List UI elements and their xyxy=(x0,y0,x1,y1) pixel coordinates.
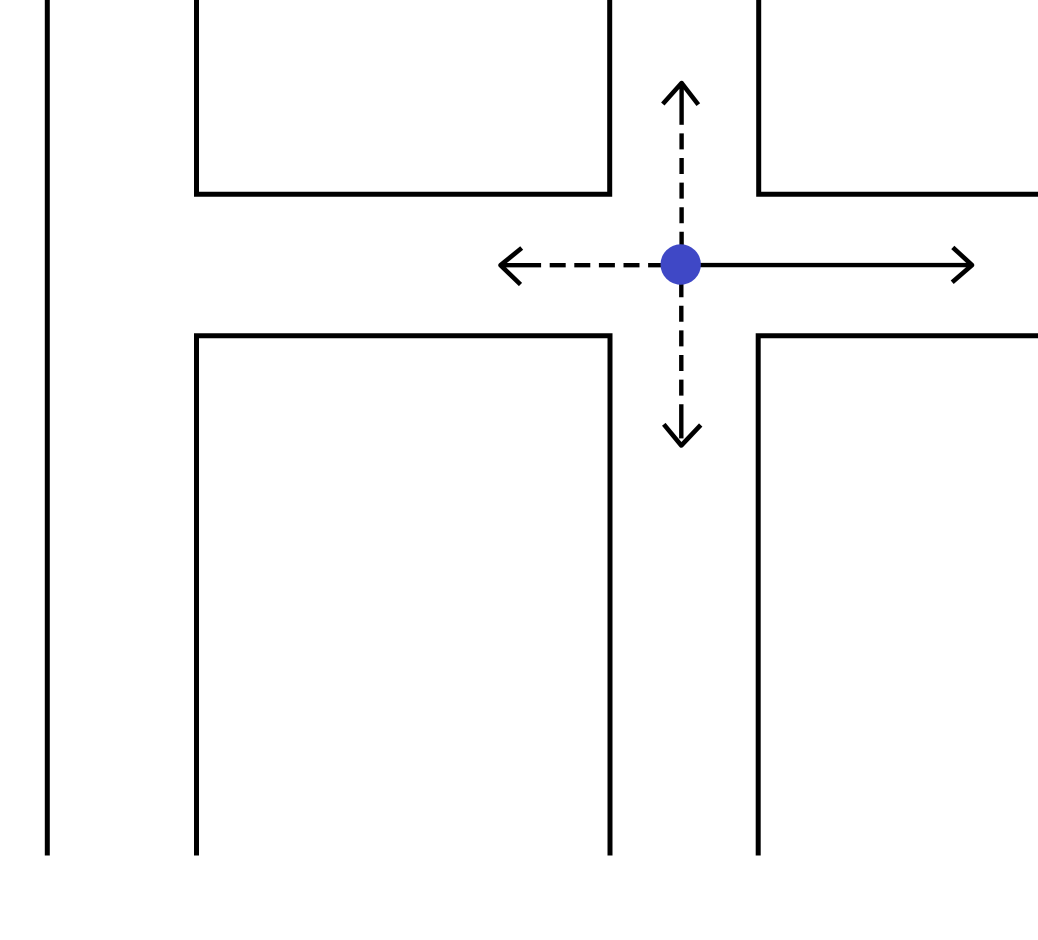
block NW outline xyxy=(197,0,610,194)
dashed arrow north head xyxy=(663,83,699,105)
dashed arrow south head xyxy=(664,424,701,445)
dashed arrow north shaft xyxy=(679,86,683,265)
dashed arrow west head xyxy=(501,248,522,285)
dashed arrow south shaft xyxy=(679,265,683,439)
solid arrow east shaft xyxy=(681,263,969,267)
road edge west boundary xyxy=(45,0,50,856)
block SW outline xyxy=(197,336,611,856)
block SE outline xyxy=(758,336,1038,856)
solid arrow east head xyxy=(952,247,972,282)
block NE outline xyxy=(759,0,1038,194)
node agent dot xyxy=(661,244,701,284)
dashed arrow west shaft xyxy=(504,263,681,267)
